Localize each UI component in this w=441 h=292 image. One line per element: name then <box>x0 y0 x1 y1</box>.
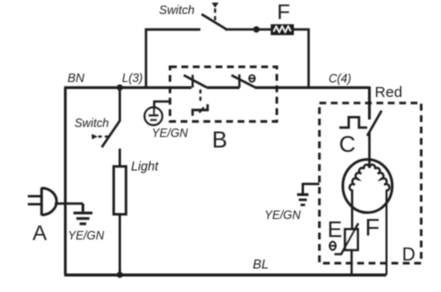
svg-text:Red: Red <box>375 84 403 101</box>
switch B1 blade <box>184 75 207 87</box>
svg-text:BL: BL <box>253 256 269 271</box>
ground (box D chassis earth YE/GN) <box>297 183 319 205</box>
svg-text:F: F <box>277 0 290 24</box>
svg-text:C(4): C(4) <box>329 72 352 85</box>
plug A body (D-shape) <box>42 188 57 216</box>
switch S1 (top) blade <box>202 14 227 29</box>
thermistor E body <box>345 229 358 250</box>
wire: top bus segment BN/L(3) from left bus to switch B1 <box>64 86 191 89</box>
switch B2 fixed contact post <box>238 74 240 87</box>
switch B1 mechanical dashed link <box>199 90 201 103</box>
wire: bus segment between switch B1 and switch B2 <box>207 86 240 89</box>
switch S2 (lamp) blade <box>102 121 120 147</box>
box D dashed enclosure <box>319 103 421 263</box>
motor field winding scallops <box>350 165 390 191</box>
wire: thermistor to bottom bus <box>351 250 353 275</box>
wire: lamp to bottom bus <box>119 214 121 274</box>
motor M stator circle <box>343 159 392 212</box>
svg-text:YE/GN: YE/GN <box>152 127 189 140</box>
wire: bottom bus BL <box>64 274 386 277</box>
wire: lamp branch from switch to lamp <box>119 149 121 167</box>
wire: left bus vertical BN <box>64 88 67 275</box>
switch S1 actuator dashed link <box>214 9 216 22</box>
plug A prong upper <box>28 195 42 197</box>
svg-text:D: D <box>402 243 415 264</box>
PE terminal symbol (circle with earth) near box B <box>145 107 163 125</box>
svg-text:A: A <box>33 221 48 245</box>
switch S1 actuator: filled triangle <box>212 3 219 8</box>
switch S2 actuator dashed link <box>98 136 108 138</box>
switch B1 fixed contact post <box>192 75 194 88</box>
wire: top branch from fuse to right riser down to bus <box>293 28 308 87</box>
node L(3) junction dot <box>117 84 123 90</box>
plug A prong lower <box>28 203 42 205</box>
svg-text:Switch: Switch <box>75 117 109 130</box>
wire: motor right lead to bottom bus <box>386 190 388 275</box>
latch mechanism symbol <box>193 104 208 116</box>
wire: plug to earth, crossing left bus <box>55 202 83 204</box>
lamp (Light) body <box>114 166 126 214</box>
svg-text:B: B <box>212 127 227 153</box>
svg-text:Switch: Switch <box>159 3 195 17</box>
wire: top branch left riser and horizontal to switch <box>146 30 200 89</box>
fuse F body <box>271 25 293 35</box>
svg-text:BN: BN <box>68 71 85 85</box>
label theta (thermistor) <box>330 242 336 250</box>
wire: bus segment C(4) from switch B2 to right corner, down into box D <box>255 86 369 119</box>
wire: cutout C to motor winding apex <box>368 133 370 169</box>
thermistor E diagonal with foot <box>334 223 358 254</box>
switch S2 actuator: filled triangle <box>92 134 98 140</box>
svg-text:YE/GN: YE/GN <box>68 230 105 243</box>
svg-text:Light: Light <box>131 159 159 173</box>
wire: top branch from switch to node <box>225 28 272 30</box>
fuse F element zigzag <box>274 26 291 32</box>
ground (plug earth YE/GN) <box>73 204 92 224</box>
wire: motor left lead to thermistor <box>351 190 353 230</box>
svg-text:YE/GN: YE/GN <box>265 209 302 222</box>
latch pawl tick <box>199 107 204 112</box>
switch B2 (thermal) blade <box>231 75 255 87</box>
thermal cutout C bimetal bracket <box>339 117 367 127</box>
svg-text:C: C <box>339 131 356 157</box>
wire: PE terminal to box B chassis <box>153 101 169 107</box>
wire: lamp branch upper (from L(3) down to switch) <box>119 88 121 122</box>
svg-text:E: E <box>328 217 343 242</box>
node: top branch junction dot before fuse <box>253 26 259 32</box>
label theta on switch B2 (drawn) <box>249 75 255 82</box>
svg-text:F: F <box>365 215 380 242</box>
node: lamp branch to bottom bus junction dot <box>117 272 123 278</box>
box B dashed enclosure <box>170 67 277 122</box>
svg-text:L(3): L(3) <box>122 72 143 85</box>
thermal cutout C blade <box>367 111 381 136</box>
